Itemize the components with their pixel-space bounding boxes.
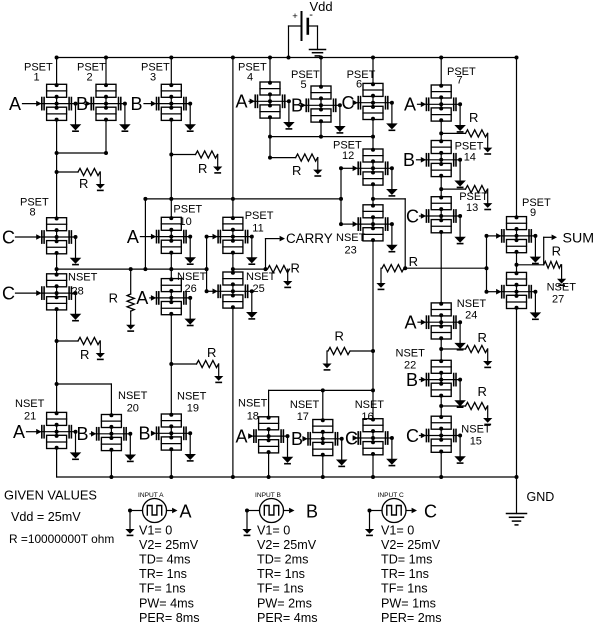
wire PSET11 source to CARRY node	[232, 253, 234, 269]
svg-text:6: 6	[356, 79, 362, 91]
wire down to NSET15	[440, 406, 442, 416]
svg-text:B: B	[291, 429, 303, 449]
svg-text:A: A	[180, 502, 192, 522]
transistor PSET 8	[41, 217, 80, 265]
svg-text:PW= 2ms: PW= 2ms	[257, 596, 312, 610]
svg-text:CARRY: CARRY	[286, 231, 333, 246]
resistor R (PSET3 node)	[171, 154, 195, 156]
svg-text:A: A	[404, 95, 416, 115]
svg-text:R: R	[478, 384, 487, 399]
wire NSET16/17/18 drain rail	[269, 389, 373, 391]
svg-text:15: 15	[470, 436, 482, 448]
svg-text:18: 18	[247, 411, 259, 423]
wire down to NSET19	[170, 364, 172, 414]
svg-text:24: 24	[465, 310, 477, 322]
wire PSET3 drain to rail	[170, 58, 172, 85]
svg-text:NSET: NSET	[396, 348, 426, 360]
svg-text:B: B	[306, 502, 318, 522]
transistor PSET 12	[358, 148, 397, 196]
svg-text:B: B	[131, 94, 143, 114]
wire NSET16 source to ground	[372, 455, 374, 477]
svg-text:A: A	[136, 288, 148, 308]
svg-text:R: R	[469, 110, 478, 125]
transistor PSET 10	[156, 216, 195, 264]
svg-text:27: 27	[552, 294, 564, 306]
svg-text:V1= 0: V1= 0	[381, 524, 414, 538]
gate tee for PSET9/NSET27	[486, 236, 488, 268]
svg-text:NSET: NSET	[336, 232, 366, 244]
svg-text:12: 12	[342, 150, 354, 162]
svg-text:C: C	[406, 426, 419, 446]
svg-text:NSET: NSET	[290, 399, 320, 411]
svg-text:C: C	[2, 283, 15, 303]
wire NSET26 source down	[170, 315, 172, 364]
svg-text:14: 14	[464, 152, 476, 164]
svg-text:PSET: PSET	[455, 140, 484, 152]
resistor R (SUM pulldown)	[544, 261, 561, 268]
wire Vdd top rail	[57, 57, 517, 59]
transistor PSET 9	[501, 215, 540, 263]
transistor NSET 20	[96, 413, 135, 461]
wire PSET13 source down to NSET24 (crosses sum line)	[440, 233, 442, 303]
svg-text:PER= 8ms: PER= 8ms	[139, 611, 200, 625]
transistor PSET 7	[426, 84, 465, 132]
svg-text:V2= 25mV: V2= 25mV	[381, 538, 441, 552]
transistor NSET 27	[501, 271, 540, 319]
svg-text:TR= 1ns: TR= 1ns	[381, 567, 429, 581]
transistor PSET 13	[426, 196, 465, 244]
svg-text:R: R	[198, 161, 207, 176]
output arrow A	[167, 510, 172, 512]
wire NSET15 source to ground rail	[440, 452, 442, 477]
wire PSET8 source to carry node	[56, 254, 58, 269]
svg-text:1: 1	[34, 72, 40, 84]
svg-text:20: 20	[127, 403, 139, 415]
wire down to NSET16 rail	[372, 351, 374, 390]
svg-text:GIVEN VALUES: GIVEN VALUES	[4, 488, 97, 503]
output arrow B	[284, 510, 289, 512]
svg-text:TF= 1ns: TF= 1ns	[257, 582, 304, 596]
ground GND	[515, 475, 519, 479]
wire NSET23 source down	[372, 241, 374, 351]
transistor PSET 11	[218, 216, 257, 264]
svg-text:9: 9	[530, 207, 536, 219]
transistor NSET 22	[426, 359, 465, 407]
svg-text:PSET: PSET	[245, 210, 274, 222]
wire tee to NSET20 drain	[57, 383, 112, 385]
svg-text:2: 2	[87, 72, 93, 84]
wire down to NSET20/21 tee	[56, 341, 58, 384]
wire PSET12 source to sum tap	[372, 185, 374, 199]
svg-text:V2= 25mV: V2= 25mV	[139, 538, 199, 552]
wire PSET11 drain to Vdd rail	[232, 58, 234, 218]
svg-text:TD= 1ms: TD= 1ms	[381, 553, 432, 567]
svg-text:13: 13	[466, 202, 478, 214]
svg-text:3: 3	[150, 72, 156, 84]
wire carry rail down to carry line	[144, 199, 146, 269]
transistor PSET 4	[255, 81, 294, 129]
svg-text:19: 19	[187, 403, 199, 415]
resistor R (NSET23 node)	[351, 350, 374, 352]
svg-text:PER= 4ms: PER= 4ms	[257, 611, 318, 625]
svg-text:25: 25	[253, 283, 265, 295]
transistor NSET 24	[426, 302, 465, 350]
svg-text:C: C	[424, 502, 437, 522]
wire down to PSET14	[440, 133, 442, 140]
wire PSET3 node to carry rail	[170, 155, 172, 199]
wire node down to PSET12	[372, 137, 374, 149]
svg-text:R: R	[109, 291, 118, 306]
svg-text:A: A	[9, 94, 21, 114]
transistor NSET 15	[426, 415, 465, 463]
svg-text:R =10000000T ohm: R =10000000T ohm	[9, 532, 114, 546]
resistor R (NSET22 node)	[441, 405, 465, 407]
wire NSET25 source to ground rail	[232, 308, 234, 477]
wire carry rail	[145, 198, 341, 200]
svg-text:NSET: NSET	[355, 399, 385, 411]
wire NSET20 source to ground rail	[110, 451, 112, 477]
transistor PSET 3	[156, 83, 195, 131]
svg-text:A: A	[236, 92, 248, 112]
svg-text:C: C	[342, 93, 355, 113]
gate tee for PSET11/NSET25	[206, 237, 208, 270]
svg-text:PW= 4ms: PW= 4ms	[139, 596, 194, 610]
wire carry line (carry node)	[57, 268, 207, 270]
wire PSET6 drain to rail	[372, 58, 374, 84]
svg-text:R: R	[478, 330, 487, 345]
svg-text:B: B	[406, 370, 418, 390]
wire PSET10 drain to carry rail	[170, 199, 172, 217]
wire PSET1-PSET2 sources join	[56, 120, 58, 153]
svg-text:23: 23	[345, 245, 357, 257]
svg-text:GND: GND	[527, 490, 555, 504]
wire ground rail	[57, 476, 517, 478]
resistor R (sum node pulldown)	[382, 265, 404, 272]
svg-text:R: R	[80, 347, 89, 362]
wire PSET3 source down	[170, 120, 172, 154]
svg-text:R: R	[291, 261, 300, 276]
transistor NSET 28	[41, 273, 80, 321]
resistor R (PSET7 node)	[441, 132, 465, 134]
wire PSET9 drain from rail	[516, 58, 518, 217]
wire col1 down to node R1	[56, 153, 58, 172]
output arrow C	[406, 510, 411, 512]
svg-text:4: 4	[247, 72, 253, 84]
wire node down to R	[269, 137, 271, 158]
wire PSET4 drain to rail	[269, 58, 271, 83]
svg-text:TR= 1ns: TR= 1ns	[257, 567, 305, 581]
svg-text:21: 21	[24, 411, 36, 423]
transistor NSET 16	[358, 418, 397, 466]
svg-text:PSET: PSET	[522, 197, 551, 209]
svg-text:NSET: NSET	[238, 398, 268, 410]
svg-text:R: R	[409, 254, 418, 269]
svg-text:7: 7	[457, 75, 463, 87]
transistor PSET 5	[306, 85, 345, 133]
svg-text:NSET: NSET	[177, 391, 207, 403]
resistor R (carry node pulldown)	[130, 269, 132, 294]
svg-text:B: B	[139, 424, 151, 444]
wire PSET1 drain to rail	[56, 58, 58, 85]
wire sum line	[405, 267, 486, 269]
svg-text:B: B	[403, 150, 415, 170]
svg-text:V2= 25mV: V2= 25mV	[257, 538, 317, 552]
wire carry node to NSET26	[170, 269, 172, 279]
resistor R (NSET28 node)	[57, 340, 78, 342]
transistor PSET 6	[358, 82, 397, 130]
wire NSET28 source down	[56, 310, 58, 341]
wire sum tap right and down	[373, 198, 405, 200]
svg-text:A: A	[13, 422, 25, 442]
battery Vdd	[301, 12, 303, 40]
svg-text:A: A	[405, 313, 417, 333]
svg-text:R: R	[552, 244, 561, 259]
ground under battery	[310, 49, 326, 51]
resistor R (PSET14 node)	[441, 188, 465, 190]
svg-text:28: 28	[72, 286, 84, 298]
svg-text:NSET: NSET	[177, 271, 207, 283]
transistor NSET 17	[307, 418, 346, 466]
transistor NSET 18	[253, 416, 292, 464]
svg-text:PER= 2ms: PER= 2ms	[381, 611, 442, 625]
transistor PSET 1	[41, 83, 80, 131]
svg-text:NSET: NSET	[461, 423, 491, 435]
wire SUM node to NSET27	[516, 265, 518, 273]
svg-text:10: 10	[180, 216, 192, 228]
svg-text:NSET: NSET	[15, 398, 45, 410]
svg-text:Vdd: Vdd	[310, 0, 333, 14]
resistor R (PSET4/5/6 node)	[270, 157, 296, 159]
gate loop carry to PSET12/NSET23	[340, 168, 342, 199]
svg-text:5: 5	[301, 79, 307, 91]
svg-text:16: 16	[361, 411, 373, 423]
wire CARRY node to NSET25	[232, 269, 234, 272]
svg-text:R: R	[79, 176, 88, 191]
svg-text:11: 11	[252, 223, 263, 235]
transistor NSET 26	[156, 277, 195, 325]
ground arrow for INPUT A	[129, 511, 131, 530]
svg-text:V1= 0: V1= 0	[139, 524, 172, 538]
svg-text:+: +	[292, 11, 298, 22]
svg-text:PW= 1ms: PW= 1ms	[381, 596, 436, 610]
wire PSET2 drain to rail	[105, 58, 107, 85]
wire node to PSET8	[56, 172, 58, 218]
wire PSET5 drain to rail	[320, 58, 322, 87]
svg-text:26: 26	[185, 283, 197, 295]
svg-text:NSET: NSET	[118, 390, 148, 402]
wire carry node to NSET28	[56, 269, 58, 274]
svg-text:8: 8	[30, 207, 36, 219]
svg-text:Vdd = 25mV: Vdd = 25mV	[11, 510, 81, 524]
wire NSET22 source down	[440, 396, 442, 406]
transistor NSET 19	[156, 413, 195, 461]
wire CARRY tap	[233, 268, 266, 270]
svg-text:A: A	[127, 227, 139, 247]
svg-text:TR= 1ns: TR= 1ns	[139, 567, 187, 581]
wire down to NSET21	[56, 384, 58, 412]
wire NSET17 source to ground	[322, 456, 324, 477]
ground arrow for INPUT C	[369, 511, 371, 530]
wire NSET27 source to ground rail	[516, 309, 518, 478]
svg-text:TD= 4ms: TD= 4ms	[139, 553, 190, 567]
svg-text:V1= 0: V1= 0	[257, 524, 290, 538]
transistor NSET 25	[218, 271, 257, 319]
ground arrow for INPUT B	[246, 511, 248, 530]
svg-text:NSET: NSET	[68, 272, 98, 284]
svg-text:R: R	[207, 345, 216, 360]
wire SUM tap	[517, 264, 544, 266]
svg-text:B: B	[77, 424, 89, 444]
svg-text:R: R	[292, 163, 301, 178]
wire PSET7 source down	[440, 121, 442, 133]
svg-text:NSET: NSET	[457, 298, 487, 310]
svg-text:TF= 1ns: TF= 1ns	[381, 582, 428, 596]
resistor R (PSET1/2 node)	[57, 171, 78, 173]
svg-text:SUM: SUM	[563, 231, 593, 247]
wire PSET9 source to SUM node	[516, 253, 518, 265]
wire PSET14 source down	[440, 177, 442, 190]
wire PSET7 drain to rail	[440, 58, 442, 86]
wire PSET4/5/6 sources join	[269, 118, 271, 137]
resistor R (CARRY pulldown)	[268, 266, 290, 273]
svg-text:R: R	[335, 329, 344, 344]
wire NSET19 source to ground rail	[170, 450, 172, 477]
svg-text:A: A	[236, 426, 248, 446]
svg-text:NSET: NSET	[547, 282, 577, 294]
wire NSET18 source to ground	[268, 453, 270, 477]
svg-text:TF= 1ns: TF= 1ns	[139, 582, 186, 596]
wire down to NSET23	[372, 199, 374, 205]
svg-text:TD= 2ms: TD= 2ms	[257, 553, 308, 567]
wire NSET21 source to ground rail	[56, 449, 58, 478]
wire down to PSET13	[440, 189, 442, 197]
transistor PSET 2	[91, 83, 130, 131]
wire down to NSET22	[440, 349, 442, 360]
transistor NSET 21	[41, 411, 80, 459]
svg-text:NSET: NSET	[246, 271, 276, 283]
svg-text:INPUT B: INPUT B	[255, 492, 281, 499]
svg-text:C: C	[2, 227, 15, 247]
resistor R (NSET24 node)	[441, 348, 465, 350]
resistor R (NSET26 node)	[171, 363, 196, 365]
wire PSET10 source to carry line	[170, 253, 172, 269]
wire NSET24 source down	[440, 339, 442, 349]
svg-text:17: 17	[297, 411, 309, 423]
svg-text:INPUT A: INPUT A	[138, 492, 164, 499]
svg-text:INPUT C: INPUT C	[378, 492, 404, 499]
svg-text:C: C	[406, 206, 419, 226]
transistor NSET 23	[358, 204, 397, 252]
svg-text:PSET: PSET	[173, 204, 202, 216]
transistor PSET 14	[426, 139, 465, 187]
